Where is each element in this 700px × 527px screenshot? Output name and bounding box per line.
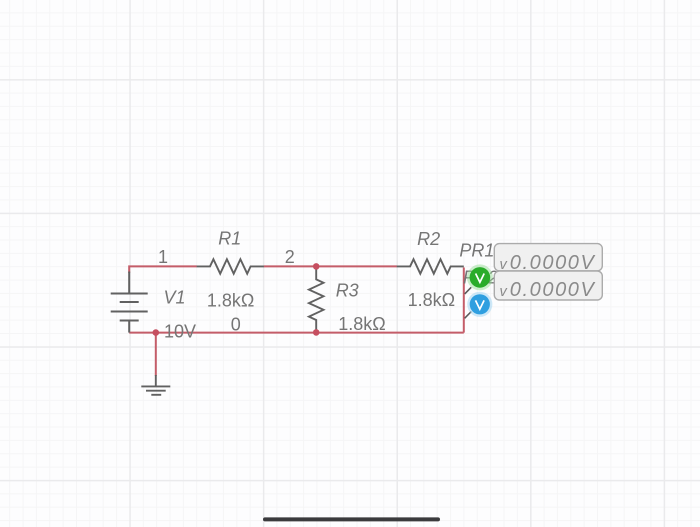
readout box 1 (494, 244, 602, 271)
readout box 2 (494, 271, 602, 300)
ground (141, 375, 170, 395)
junction node 0/ground (153, 329, 160, 336)
wire ground branch (155, 333, 157, 376)
probe PR1 green circle (467, 264, 493, 290)
resistor R3 (309, 266, 324, 332)
wire node 1: left corner from battery top to R1 (129, 266, 197, 273)
junction node 2 (313, 263, 320, 270)
svg-text:v0.0000V: v0.0000V (500, 279, 596, 301)
home indicator bar (263, 517, 440, 521)
probe tip PR2 (465, 312, 472, 319)
resistor R1 (197, 259, 264, 274)
junction node 0/R3 (313, 329, 320, 336)
wire node 3: R2 right corner down to bottom wire (463, 268, 465, 333)
svg-text:1.8kΩ: 1.8kΩ (408, 290, 455, 310)
wire node 2: R1 right to R2 left (264, 265, 397, 267)
svg-text:R1: R1 (218, 229, 241, 249)
probe PR2 blue circle (467, 292, 492, 317)
resistor R2 (397, 259, 464, 274)
svg-text:1.8kΩ: 1.8kΩ (338, 314, 385, 334)
svg-text:1: 1 (158, 247, 168, 267)
svg-text:PR1: PR1 (459, 241, 494, 261)
svg-text:2: 2 (285, 247, 295, 267)
probe tip PR1 (465, 287, 472, 294)
svg-text:V1: V1 (163, 288, 185, 308)
battery V1 (111, 272, 148, 333)
svg-text:R2: R2 (417, 229, 440, 249)
svg-text:0: 0 (231, 314, 241, 334)
svg-text:1.8kΩ: 1.8kΩ (207, 291, 254, 311)
svg-text:R3: R3 (336, 280, 359, 300)
svg-text:10V: 10V (164, 322, 196, 342)
wire node 0: bottom wire (129, 332, 464, 334)
